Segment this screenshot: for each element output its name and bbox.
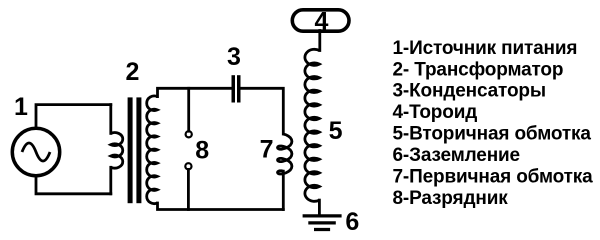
svg-text:6: 6	[345, 208, 359, 236]
wire top of source loop	[36, 105, 111, 128]
wire bottom of source loop	[36, 176, 111, 194]
svg-text:6-Заземление: 6-Заземление	[393, 145, 520, 166]
transformer T1 core bar right	[136, 97, 141, 203]
ground GND bar 1	[303, 214, 342, 217]
capacitor C1 left plate	[232, 75, 236, 102]
svg-text:1: 1	[14, 93, 28, 121]
transformer T1 secondary coil	[147, 96, 158, 204]
spark gap G1 upper electrode	[186, 131, 192, 137]
svg-text:8: 8	[195, 137, 209, 165]
ground GND bar 3	[314, 228, 330, 231]
wire toroid to secondary	[318, 31, 321, 51]
svg-text:7-Первичная обмотка: 7-Первичная обмотка	[393, 167, 594, 188]
wire tank loop bottom-left	[158, 203, 284, 210]
wire right edge of source loop (lower)	[109, 167, 112, 194]
wire secondary to ground	[318, 200, 321, 214]
ground GND bar 2	[308, 221, 336, 224]
transformer T1 primary coil	[111, 133, 123, 169]
wire tank loop top-right	[241, 88, 284, 134]
spark gap G1 wire upper	[187, 88, 190, 131]
svg-text:3-Конденсаторы: 3-Конденсаторы	[393, 81, 546, 102]
toroid E1	[292, 10, 349, 31]
svg-text:3: 3	[227, 43, 241, 71]
AC source U1 (power supply)	[12, 128, 59, 175]
svg-text:4-Тороид: 4-Тороид	[393, 102, 478, 123]
spark gap G1 lower electrode	[185, 163, 191, 169]
wire tank loop right lower	[282, 171, 285, 209]
svg-text:5: 5	[329, 117, 343, 145]
spark gap G1 wire lower	[187, 169, 190, 209]
primary winding L1	[278, 134, 292, 174]
wire tank loop top-left	[158, 88, 232, 96]
svg-text:1-Источник питания: 1-Источник питания	[393, 38, 578, 59]
capacitor C1 right plate	[237, 75, 241, 102]
svg-text:8-Разрядник: 8-Разрядник	[393, 188, 509, 209]
svg-text:7: 7	[260, 136, 274, 164]
svg-text:4: 4	[314, 8, 328, 36]
svg-text:2: 2	[125, 58, 139, 86]
secondary winding L2	[305, 49, 320, 201]
svg-text:2- Трансформатор: 2- Трансформатор	[393, 59, 564, 80]
svg-text:5-Вторичная обмотка: 5-Вторичная обмотка	[393, 124, 592, 145]
transformer T1 core bar left	[128, 97, 133, 203]
wire right edge of source loop (upper)	[109, 105, 112, 134]
